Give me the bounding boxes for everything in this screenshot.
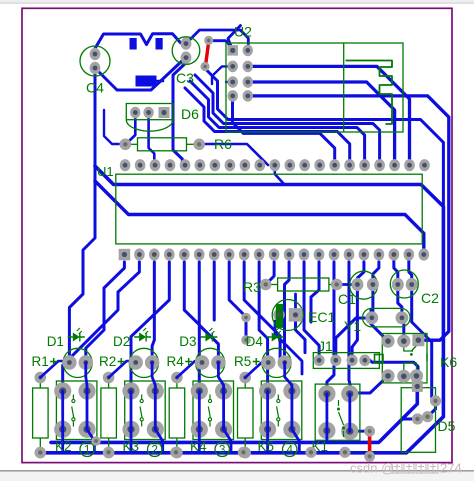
svg-text:csdn @: csdn @ xyxy=(350,461,394,476)
svg-text:D3: D3 xyxy=(179,334,196,349)
svg-text:K5: K5 xyxy=(258,439,275,454)
svg-text:R6: R6 xyxy=(214,136,232,152)
svg-text:1: 1 xyxy=(84,445,90,457)
svg-text:3: 3 xyxy=(219,445,225,457)
svg-text:D5: D5 xyxy=(438,418,456,434)
svg-text:4: 4 xyxy=(286,445,293,457)
svg-text:Y1: Y1 xyxy=(344,318,361,334)
svg-text:C1: C1 xyxy=(338,291,356,307)
svg-text:C3: C3 xyxy=(176,70,194,86)
svg-text:EC1: EC1 xyxy=(308,309,335,325)
svg-text:K2: K2 xyxy=(55,439,72,454)
svg-text:R2: R2 xyxy=(99,354,116,369)
svg-text:D2: D2 xyxy=(113,334,130,349)
svg-text:D4: D4 xyxy=(246,334,264,349)
svg-text:R4: R4 xyxy=(167,354,185,369)
svg-text:K3: K3 xyxy=(123,439,140,454)
svg-text:C4: C4 xyxy=(86,80,104,96)
svg-text:R1: R1 xyxy=(32,354,49,369)
svg-text:D1: D1 xyxy=(47,334,64,349)
svg-text:C2: C2 xyxy=(421,290,439,306)
svg-text:U1: U1 xyxy=(97,164,114,179)
svg-text:K4: K4 xyxy=(190,439,207,454)
svg-text:D6: D6 xyxy=(181,106,199,122)
svg-text:U2: U2 xyxy=(234,24,252,40)
svg-text:R5: R5 xyxy=(234,354,251,369)
svg-text:K6: K6 xyxy=(440,354,457,370)
svg-text:2: 2 xyxy=(151,445,157,457)
svg-text:R3: R3 xyxy=(243,279,261,295)
svg-text:274: 274 xyxy=(440,461,462,476)
svg-text:J1: J1 xyxy=(318,338,333,354)
